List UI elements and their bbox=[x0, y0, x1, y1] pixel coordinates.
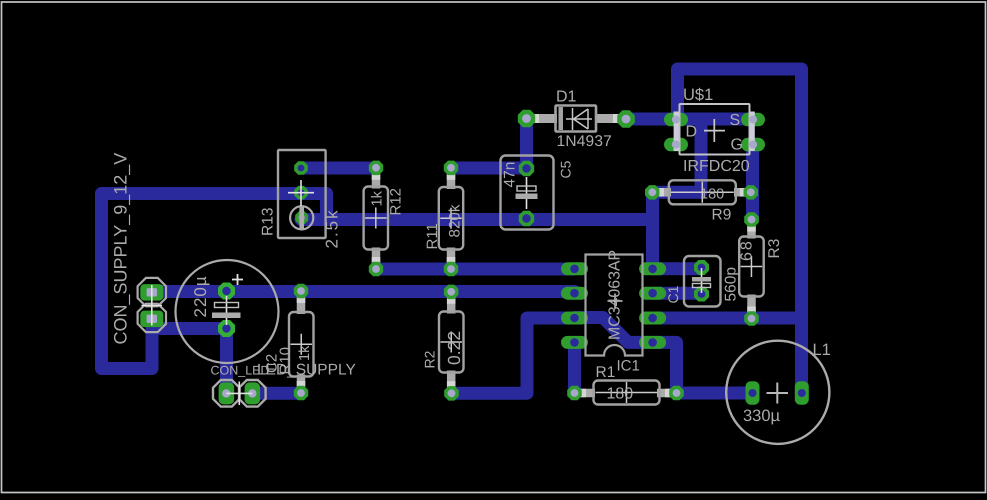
svg-text:560p: 560p bbox=[723, 267, 740, 301]
svg-text:C2: C2 bbox=[264, 354, 281, 373]
svg-text:68: 68 bbox=[739, 239, 756, 261]
svg-text:2.5k: 2.5k bbox=[323, 208, 342, 248]
svg-text:IRFDC20: IRFDC20 bbox=[683, 158, 750, 175]
svg-text:D1: D1 bbox=[556, 89, 577, 106]
svg-text:1N4937: 1N4937 bbox=[557, 133, 613, 150]
svg-text:R1: R1 bbox=[596, 364, 616, 381]
svg-text:330µ: 330µ bbox=[743, 407, 781, 425]
svg-text:R11: R11 bbox=[424, 223, 441, 249]
svg-text:R3: R3 bbox=[766, 239, 783, 259]
svg-text:R12: R12 bbox=[388, 188, 405, 216]
svg-text:R9: R9 bbox=[712, 207, 732, 224]
svg-text:180: 180 bbox=[607, 386, 634, 403]
svg-text:1k: 1k bbox=[297, 345, 313, 361]
svg-text:C1: C1 bbox=[665, 285, 681, 303]
svg-text:R13: R13 bbox=[260, 208, 277, 236]
svg-text:820k: 820k bbox=[447, 204, 464, 237]
svg-text:G: G bbox=[731, 137, 743, 154]
svg-text:180: 180 bbox=[700, 187, 724, 203]
svg-text:U$1: U$1 bbox=[683, 86, 713, 104]
svg-text:S: S bbox=[730, 112, 741, 129]
svg-text:MC34063AP: MC34063AP bbox=[607, 250, 624, 340]
svg-text:IC1: IC1 bbox=[617, 358, 640, 375]
svg-text:CON_SUPPLY_9_12_V: CON_SUPPLY_9_12_V bbox=[111, 153, 131, 345]
svg-text:220µ: 220µ bbox=[191, 275, 210, 317]
svg-text:R2: R2 bbox=[422, 350, 438, 368]
svg-text:L1: L1 bbox=[813, 341, 831, 359]
svg-text:1k: 1k bbox=[370, 190, 386, 206]
svg-text:D: D bbox=[686, 124, 698, 141]
svg-text:0.22: 0.22 bbox=[444, 331, 464, 365]
svg-text:C5: C5 bbox=[558, 160, 574, 178]
svg-text:47n: 47n bbox=[502, 162, 519, 188]
